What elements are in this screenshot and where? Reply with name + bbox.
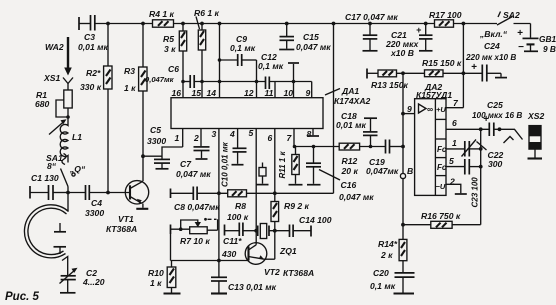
svg-text:VT2: VT2 xyxy=(264,267,280,277)
svg-text:8“: 8“ xyxy=(47,161,57,171)
svg-text:WA2: WA2 xyxy=(45,42,64,52)
svg-text:ZQ1: ZQ1 xyxy=(279,246,297,256)
svg-text:∞: ∞ xyxy=(427,104,433,114)
svg-text:0,047мк: 0,047мк xyxy=(366,166,399,176)
svg-text:3300: 3300 xyxy=(147,136,166,146)
svg-text:3: 3 xyxy=(212,129,217,139)
svg-text:1: 1 xyxy=(175,133,180,143)
svg-text:0,1 мк: 0,1 мк xyxy=(258,61,284,71)
svg-text:12: 12 xyxy=(244,88,254,98)
svg-text:9: 9 xyxy=(306,88,311,98)
svg-text:C8 0,047мк: C8 0,047мк xyxy=(174,202,220,212)
svg-text:4...20: 4...20 xyxy=(82,277,105,287)
svg-text:R16 750 к: R16 750 к xyxy=(421,211,461,221)
svg-text:Рис. 5: Рис. 5 xyxy=(5,291,39,303)
svg-text:К174ХА2: К174ХА2 xyxy=(334,96,371,106)
svg-text:R9 2 к: R9 2 к xyxy=(284,201,310,211)
svg-text:R14*: R14* xyxy=(378,239,398,249)
svg-text:9 В: 9 В xyxy=(543,44,556,54)
svg-text:2: 2 xyxy=(193,133,199,143)
svg-text:20 к: 20 к xyxy=(341,166,359,176)
svg-text:C17 0,047 мк: C17 0,047 мк xyxy=(345,12,398,22)
svg-text:C13 0,01 мк: C13 0,01 мк xyxy=(228,282,277,292)
svg-text:10: 10 xyxy=(284,88,294,98)
svg-text:430: 430 xyxy=(221,249,237,259)
svg-text:C14 100: C14 100 xyxy=(299,215,332,225)
svg-text:2: 2 xyxy=(449,177,455,187)
svg-text:GB1: GB1 xyxy=(539,34,556,44)
svg-text:C1 130: C1 130 xyxy=(31,173,59,183)
svg-text:К157УД1: К157УД1 xyxy=(416,90,452,100)
svg-text:C11*: C11* xyxy=(223,236,242,246)
svg-text:0,047 мк: 0,047 мк xyxy=(176,169,211,179)
svg-text:15: 15 xyxy=(192,88,202,98)
svg-text:16: 16 xyxy=(172,88,182,98)
svg-text:R13 150к: R13 150к xyxy=(371,80,408,90)
svg-text:680: 680 xyxy=(35,99,50,109)
svg-text:220 мк х10 В: 220 мк х10 В xyxy=(465,53,516,62)
svg-text:C4: C4 xyxy=(91,198,102,208)
svg-text:+: + xyxy=(471,62,477,73)
svg-text:R4 1 к: R4 1 к xyxy=(149,9,175,19)
svg-text:+: + xyxy=(416,25,422,35)
svg-text:3 к: 3 к xyxy=(164,44,176,54)
svg-text:R6 1 к: R6 1 к xyxy=(194,8,220,18)
svg-text:2 к: 2 к xyxy=(380,250,393,260)
svg-text:R17 100: R17 100 xyxy=(429,10,462,20)
svg-text:1 к: 1 к xyxy=(150,278,162,288)
svg-text:R10: R10 xyxy=(148,268,164,278)
svg-text:0,047мк: 0,047мк xyxy=(145,75,175,84)
svg-text:R12: R12 xyxy=(342,156,358,166)
svg-text:R3: R3 xyxy=(124,66,135,76)
svg-text:C24: C24 xyxy=(484,41,500,51)
svg-text:В: В xyxy=(407,166,413,176)
svg-text:R15 150 к: R15 150 к xyxy=(422,58,462,68)
svg-text:8: 8 xyxy=(307,129,312,139)
svg-text:C7: C7 xyxy=(180,159,192,169)
svg-text:4: 4 xyxy=(229,129,235,139)
svg-text:„Вкл.“: „Вкл.“ xyxy=(479,29,508,39)
svg-text:R5: R5 xyxy=(163,34,174,44)
svg-text:−U: −U xyxy=(436,182,446,191)
svg-text:100 к: 100 к xyxy=(227,212,249,222)
svg-text:0,01 мк: 0,01 мк xyxy=(336,120,366,130)
svg-text:С10 0,01 мк: С10 0,01 мк xyxy=(221,141,230,187)
svg-text:КТ368А: КТ368А xyxy=(106,224,137,234)
svg-text:1: 1 xyxy=(452,138,457,148)
svg-text:SA2: SA2 xyxy=(503,10,520,20)
svg-text:C6: C6 xyxy=(168,64,179,74)
svg-text:R11 1 к: R11 1 к xyxy=(278,151,287,179)
svg-text:11: 11 xyxy=(265,88,274,98)
svg-text:Fс: Fс xyxy=(437,145,447,154)
svg-text:ДА1: ДА1 xyxy=(341,86,359,96)
svg-text:+U: +U xyxy=(436,105,446,114)
svg-text:100 мкх 16 В: 100 мкх 16 В xyxy=(472,111,522,120)
svg-text:14: 14 xyxy=(207,88,217,98)
svg-text:1 к: 1 к xyxy=(124,83,136,93)
svg-text:0,1 мк: 0,1 мк xyxy=(230,43,256,53)
svg-text:Fс: Fс xyxy=(437,163,447,172)
svg-text:VT1: VT1 xyxy=(118,214,134,224)
svg-text:C25: C25 xyxy=(487,100,503,110)
svg-text:0,01 мк: 0,01 мк xyxy=(78,42,108,52)
svg-text:6: 6 xyxy=(268,133,273,143)
svg-text:3300: 3300 xyxy=(85,208,104,218)
svg-text:„Q“: „Q“ xyxy=(69,164,86,174)
svg-text:L1: L1 xyxy=(72,132,82,142)
svg-text:C15: C15 xyxy=(303,32,319,42)
svg-text:C5: C5 xyxy=(150,125,161,135)
svg-text:0,047 мк: 0,047 мк xyxy=(296,42,331,52)
svg-text:R8: R8 xyxy=(235,201,246,211)
svg-text:XS1: XS1 xyxy=(43,73,60,83)
svg-text:КТ368А: КТ368А xyxy=(283,268,314,278)
svg-text:XS2: XS2 xyxy=(527,111,544,121)
svg-text:330 к: 330 к xyxy=(80,82,102,92)
svg-text:6: 6 xyxy=(452,118,457,128)
svg-text:R7 10 к: R7 10 к xyxy=(180,236,210,246)
svg-text:0,1 мк: 0,1 мк xyxy=(370,281,396,291)
svg-text:300: 300 xyxy=(488,159,503,169)
svg-text:9: 9 xyxy=(407,104,412,114)
svg-text:С23 100: С23 100 xyxy=(471,177,480,208)
svg-text:C20: C20 xyxy=(373,268,389,278)
svg-text:R2*: R2* xyxy=(86,68,101,78)
svg-text:C3: C3 xyxy=(84,32,95,42)
svg-text:5: 5 xyxy=(249,128,254,138)
svg-text:х10 В: х10 В xyxy=(390,48,414,58)
svg-text:−: − xyxy=(518,42,524,53)
svg-text:0,047 мк: 0,047 мк xyxy=(339,192,374,202)
svg-text:5: 5 xyxy=(449,156,454,166)
svg-text:+: + xyxy=(517,28,523,39)
svg-text:C16: C16 xyxy=(341,180,357,190)
